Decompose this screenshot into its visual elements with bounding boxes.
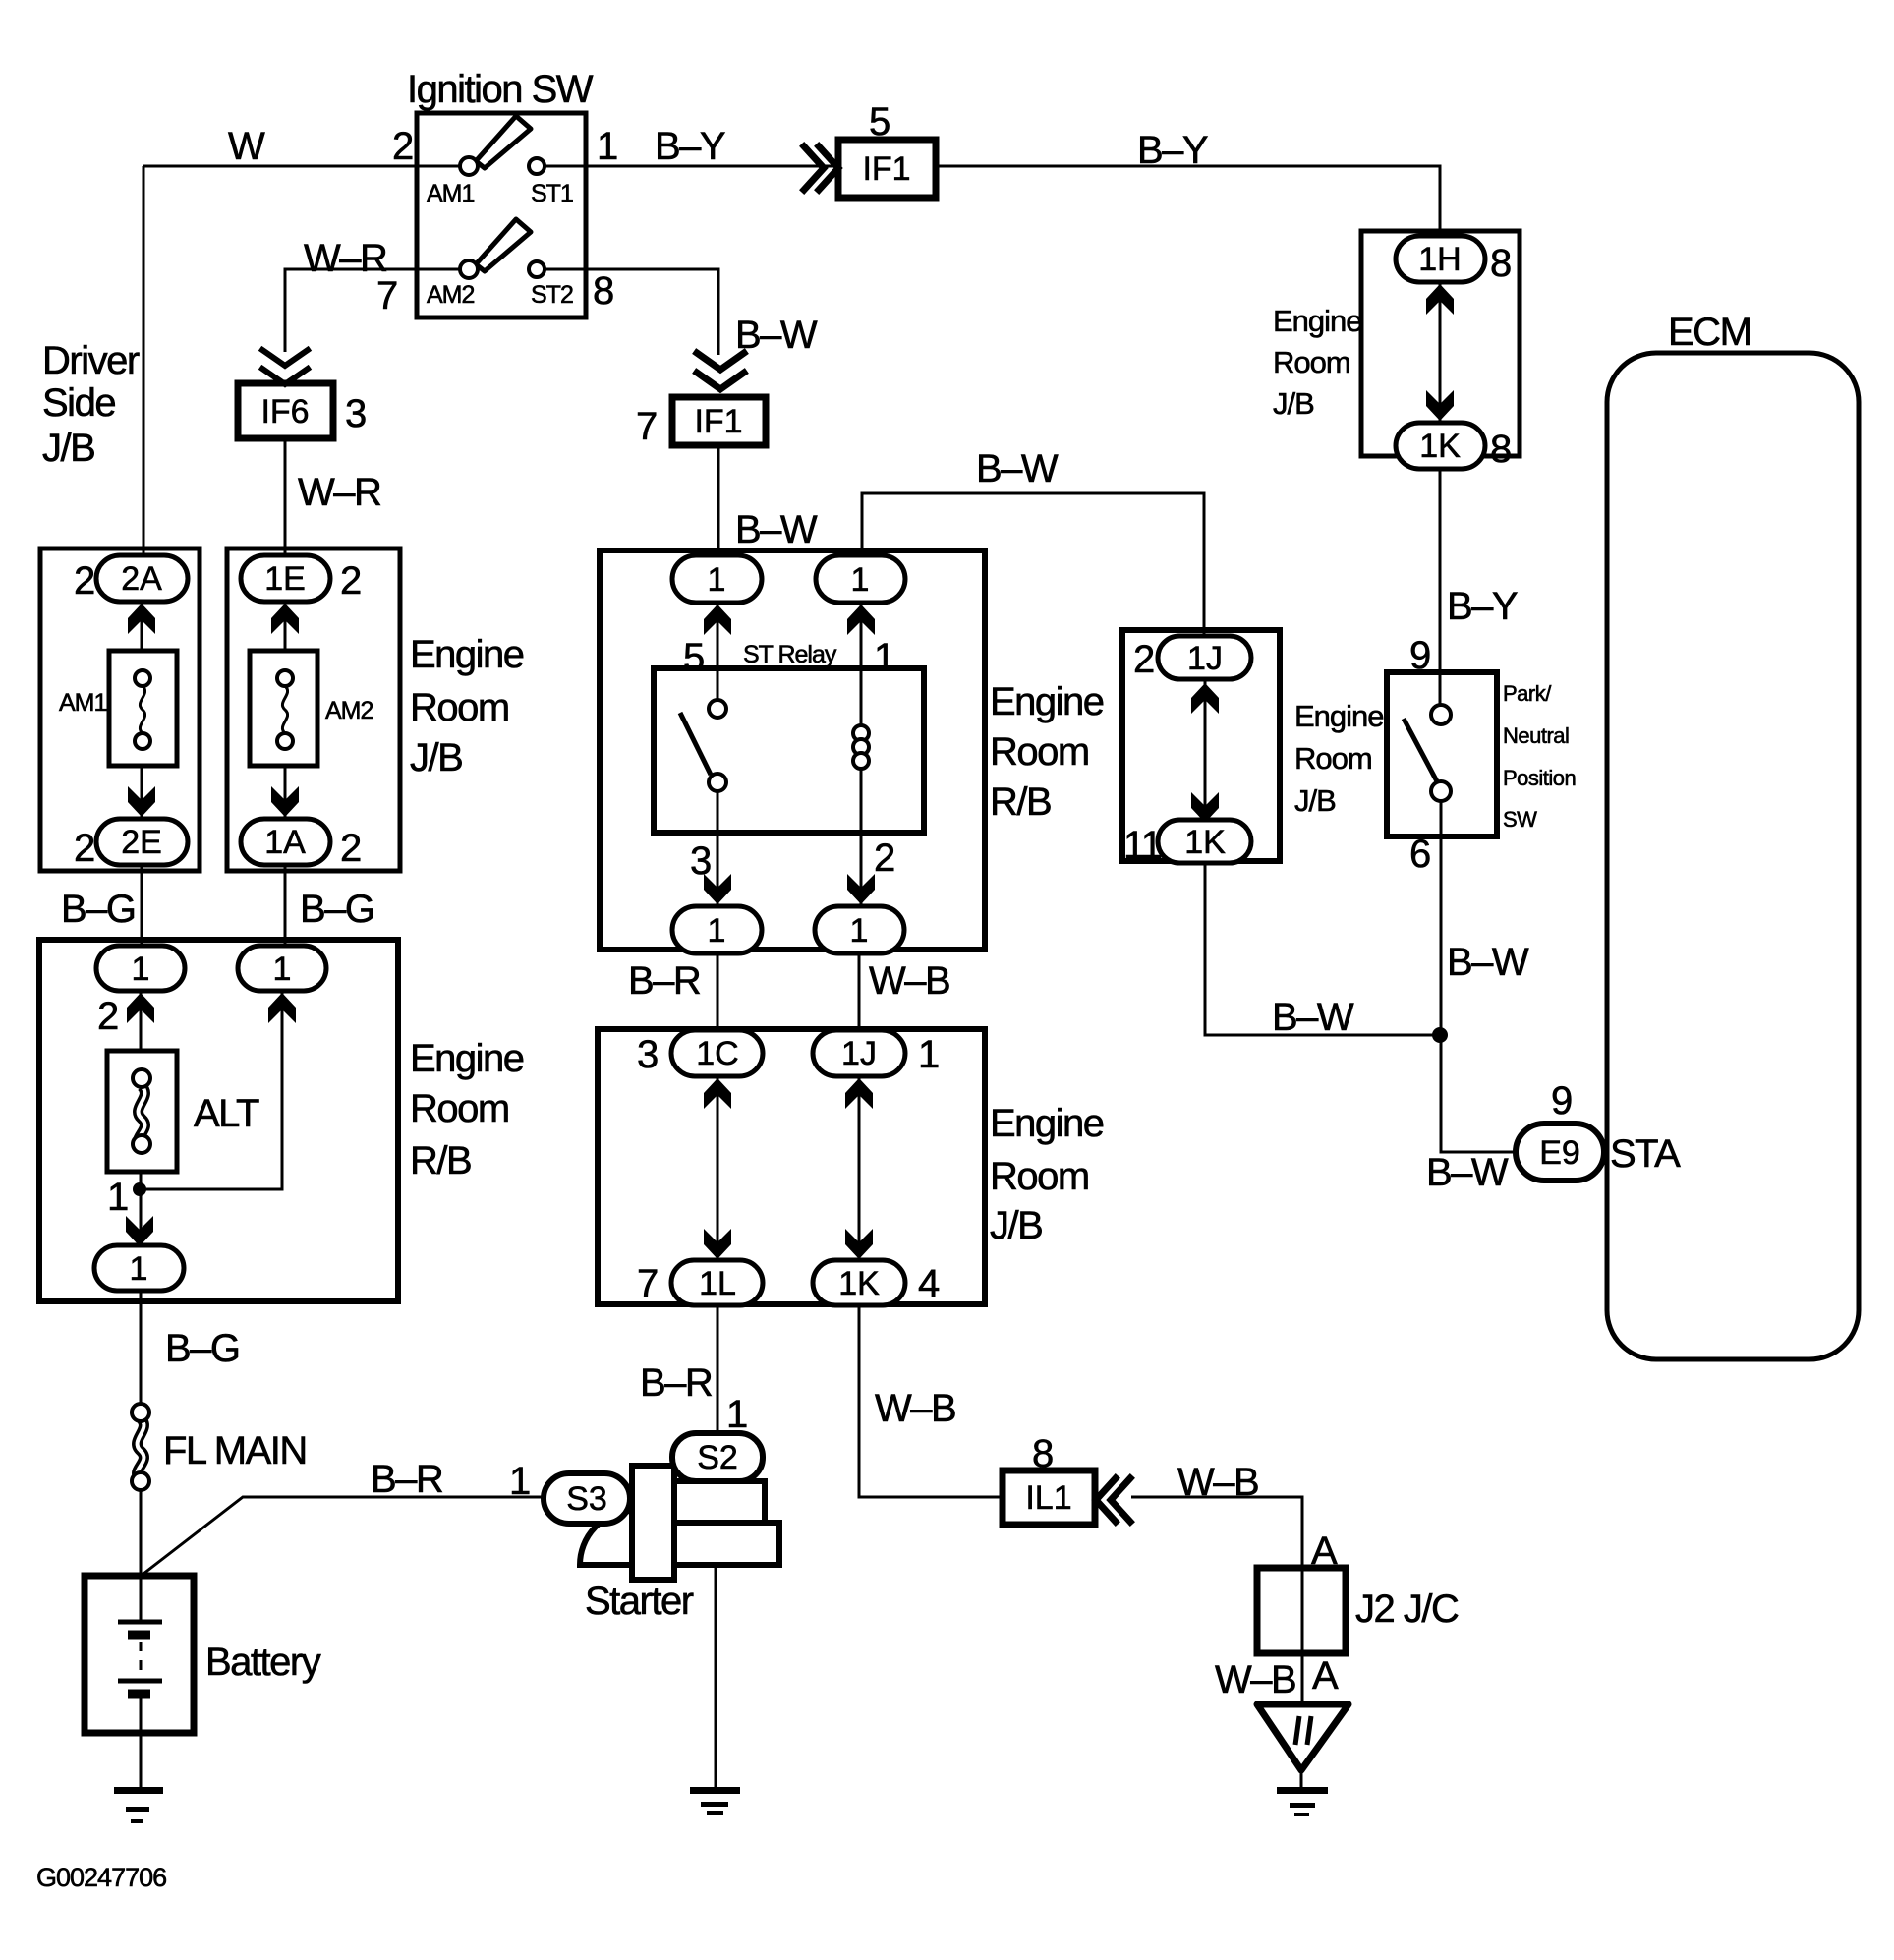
svg-text:W–B: W–B: [875, 1387, 955, 1430]
wire W horizontal from Driver Side J/B riser to ignition AM1: [143, 165, 461, 168]
connector 1E pin 2: [241, 555, 361, 603]
svg-text:1C: 1C: [696, 1035, 738, 1072]
node 1 dot: [133, 1182, 146, 1196]
svg-text:Neutral: Neutral: [1503, 723, 1569, 748]
connector arrows into IF1 lower: [697, 353, 744, 370]
svg-text:2: 2: [97, 995, 118, 1038]
arrow up left: [127, 993, 154, 1023]
arrow up relay 5: [704, 605, 731, 635]
svg-text:Room: Room: [1273, 345, 1350, 379]
wire B-R between R/B and J/B: [717, 950, 719, 1032]
ignition switch contact AM2: [427, 219, 531, 309]
svg-text:FL MAIN: FL MAIN: [163, 1429, 307, 1472]
svg-text:J/B: J/B: [1294, 783, 1336, 818]
Driver Side J/B box: [40, 548, 200, 871]
svg-text:3: 3: [345, 392, 366, 435]
svg-text:AM2: AM2: [325, 697, 373, 724]
wire W-B IL1 to J2 J/C: [1131, 1497, 1302, 1568]
ground triangle II: [1257, 1704, 1349, 1770]
svg-text:AM1: AM1: [427, 180, 475, 207]
arrow up relay 1: [847, 605, 875, 635]
svg-text:2: 2: [340, 827, 361, 870]
connector 1 bottom: [94, 1245, 184, 1291]
wire ST2 to IF1 lower connector: [545, 269, 718, 355]
arrow down 1K: [845, 1229, 873, 1259]
svg-text:B–Y: B–Y: [1447, 585, 1518, 628]
svg-text:8: 8: [1490, 428, 1511, 471]
ignition switch contact ST2: [529, 261, 573, 309]
wire W-B between R/B and J/B: [858, 950, 861, 1032]
svg-text:ST1: ST1: [531, 180, 573, 207]
Engine Room J/B box top right: [1361, 231, 1520, 456]
connector E9: [1516, 1124, 1604, 1181]
wire B-W park/neutral switch to E9: [1441, 801, 1518, 1152]
connector 1L pin 7: [637, 1260, 763, 1305]
svg-text:AM2: AM2: [427, 281, 475, 309]
svg-text:8: 8: [1490, 242, 1511, 285]
wire B-R battery to starter S3: [143, 1497, 544, 1574]
arrow up 1J: [845, 1078, 873, 1109]
connector IF6 pin 3: [238, 383, 366, 438]
svg-text:1K: 1K: [1419, 428, 1461, 465]
svg-text:Position: Position: [1503, 766, 1576, 790]
wire ALT R/B to FL MAIN: [140, 1291, 143, 1405]
junction node B-W: [1432, 1027, 1448, 1043]
svg-text:Side: Side: [42, 381, 115, 425]
svg-text:B–R: B–R: [628, 959, 701, 1003]
arrow up to 2A: [128, 604, 155, 634]
connector IF1 pin 7: [636, 397, 766, 448]
wire W-B 1K to IL1: [859, 1305, 1003, 1497]
svg-text:1: 1: [918, 1033, 939, 1076]
ground battery: [114, 1787, 163, 1823]
svg-text:8: 8: [1032, 1432, 1053, 1475]
svg-text:Room: Room: [990, 1155, 1089, 1198]
battery: [85, 1576, 321, 1733]
svg-text:W–R: W–R: [298, 471, 381, 514]
svg-text:2: 2: [392, 125, 413, 168]
ST relay box: [654, 668, 924, 833]
arrow down relay 2: [847, 874, 875, 904]
svg-text:1: 1: [597, 125, 617, 168]
svg-text:J/B: J/B: [410, 736, 462, 779]
wire 1J to 1K inside J/B: [858, 1076, 861, 1262]
svg-text:SW: SW: [1503, 807, 1537, 832]
relay contact: [680, 700, 726, 791]
svg-text:4: 4: [918, 1262, 940, 1305]
wire B-W IF1 to Engine Room R/B: [717, 445, 720, 556]
relay coil: [853, 725, 869, 769]
connector IF1 pin 5: [838, 100, 936, 198]
arrow down to 1A: [271, 786, 299, 817]
arrow up 1H: [1426, 284, 1454, 315]
fuse ALT: [107, 1051, 259, 1172]
svg-text:W–B: W–B: [1215, 1658, 1295, 1701]
junction connector J2 J/C: [1257, 1568, 1459, 1653]
svg-text:B–Y: B–Y: [655, 125, 725, 168]
svg-text:S2: S2: [697, 1439, 738, 1476]
wire relay coil column: [860, 603, 863, 727]
wire B-G 2E to Engine Room R/B: [141, 865, 143, 947]
wire FL MAIN to battery: [140, 1489, 143, 1577]
Engine Room R/B box with ALT fuse: [39, 940, 398, 1301]
wire relay contact column: [717, 603, 719, 700]
svg-text:1L: 1L: [699, 1265, 736, 1302]
svg-text:1H: 1H: [1418, 241, 1461, 278]
svg-text:1: 1: [107, 1176, 128, 1219]
svg-text:1: 1: [273, 951, 292, 988]
connector IL1 pin 8: [1003, 1432, 1095, 1525]
connector 1J pin 1: [813, 1030, 939, 1076]
svg-text:R/B: R/B: [990, 780, 1051, 824]
svg-text:7: 7: [637, 1262, 658, 1305]
arrow up right: [268, 993, 296, 1023]
svg-text:Engine: Engine: [1294, 699, 1384, 733]
svg-text:B–G: B–G: [61, 888, 136, 931]
connector 1K pin 11: [1123, 820, 1251, 867]
svg-text:Engine: Engine: [1273, 304, 1362, 338]
arrow up 1C: [704, 1078, 731, 1109]
Engine Room J/B box middle: [1122, 630, 1280, 861]
connector 1K pin 8 right: [1396, 423, 1511, 471]
svg-text:W–R: W–R: [304, 237, 387, 280]
svg-text:B–W: B–W: [1272, 996, 1354, 1039]
wire W-R from AM2 left to IF6: [285, 269, 461, 352]
connector 1 relay bottom right: [815, 906, 904, 953]
svg-text:6: 6: [1409, 833, 1430, 876]
svg-text:IF6: IF6: [260, 393, 309, 431]
svg-text:9: 9: [1551, 1079, 1572, 1123]
connector 1 relay top right: [816, 555, 905, 603]
svg-text:1J: 1J: [1187, 640, 1223, 677]
svg-text:B–R: B–R: [371, 1458, 443, 1501]
connector 2E pin 2: [74, 819, 188, 870]
svg-text:1K: 1K: [838, 1265, 880, 1302]
ignition switch contact AM1: [427, 116, 531, 207]
svg-text:1E: 1E: [264, 560, 306, 598]
svg-text:B–W: B–W: [976, 447, 1059, 490]
starter body: [580, 1466, 779, 1580]
svg-text:1: 1: [851, 561, 870, 599]
svg-text:3: 3: [637, 1033, 658, 1076]
svg-text:1K: 1K: [1184, 824, 1226, 861]
wire 1J to 1K middle junction block: [1204, 679, 1207, 826]
connector 1 relay top left: [672, 555, 762, 603]
fusible link FL MAIN: [132, 1404, 307, 1490]
svg-text:Room: Room: [410, 686, 509, 729]
svg-text:Room: Room: [1294, 741, 1372, 776]
ignition switch contact ST1: [529, 158, 573, 207]
arrow down to bottom oval: [126, 1216, 153, 1246]
fuse AM2: [250, 651, 373, 766]
svg-text:E9: E9: [1539, 1134, 1580, 1172]
wire B-Y from IF1 to Engine Room J/B 1H: [936, 166, 1440, 236]
wire through J2 J/C to ground triangle: [1301, 1568, 1304, 1704]
svg-text:J/B: J/B: [1273, 386, 1314, 421]
svg-text:2: 2: [74, 827, 94, 870]
Engine Room R/B box with ST relay: [600, 550, 985, 950]
svg-text:W–B: W–B: [1177, 1461, 1258, 1504]
wire ST1 to IF1 connector: [545, 165, 838, 168]
svg-text:W: W: [228, 125, 265, 168]
svg-text:Room: Room: [990, 730, 1089, 774]
wire starter to ground: [715, 1565, 717, 1787]
connector 1J pin 2: [1133, 636, 1251, 681]
svg-text:B–G: B–G: [165, 1327, 240, 1370]
arrow down 1K right: [1426, 390, 1454, 421]
Engine Room J/B box with AM2: [227, 548, 400, 871]
svg-text:ST2: ST2: [531, 281, 573, 309]
arrow down to 2E: [128, 786, 155, 817]
svg-text:2: 2: [340, 559, 361, 603]
svg-text:1: 1: [726, 1393, 747, 1436]
wire B-W branch to 1J junction block: [862, 493, 1204, 637]
svg-text:B–W: B–W: [735, 314, 818, 357]
Engine Room J/B box bottom: [598, 1029, 985, 1304]
svg-text:ST Relay: ST Relay: [743, 641, 837, 668]
wire node 1 branch to right oval: [140, 991, 282, 1189]
svg-text:J/B: J/B: [42, 427, 94, 470]
wire W vertical riser down to Driver Side J/B: [143, 166, 145, 556]
connector arrows into IF6: [262, 350, 308, 366]
wire 1H to 1K right junction block: [1439, 282, 1442, 425]
svg-text:11: 11: [1123, 824, 1162, 867]
svg-text:Engine: Engine: [990, 680, 1104, 723]
svg-text:J2 J/C: J2 J/C: [1355, 1587, 1459, 1631]
svg-text:IL1: IL1: [1025, 1479, 1071, 1517]
svg-text:8: 8: [593, 269, 613, 313]
svg-text:5: 5: [869, 100, 890, 144]
connector 1 left top: [96, 946, 185, 1038]
svg-text:S3: S3: [566, 1480, 607, 1518]
svg-text:Ignition SW: Ignition SW: [407, 68, 594, 111]
arrow down relay 3: [704, 874, 731, 904]
svg-text:1: 1: [708, 561, 726, 599]
connector 2A pin 2: [74, 555, 188, 603]
ignition switch SW box: [417, 113, 586, 317]
wire ground triangle stub: [1300, 1770, 1303, 1788]
svg-text:B–R: B–R: [640, 1361, 713, 1405]
svg-text:2A: 2A: [121, 560, 162, 598]
svg-text:R/B: R/B: [410, 1139, 471, 1182]
park/neutral position switch: [1387, 672, 1576, 836]
wire W-R IF6 to 1E: [284, 438, 287, 556]
svg-text:Engine: Engine: [410, 633, 524, 676]
connector S3 pin 1: [509, 1460, 630, 1524]
wire battery to ground: [140, 1693, 143, 1787]
svg-text:Driver: Driver: [42, 339, 140, 382]
svg-text:1: 1: [850, 912, 869, 950]
ground bars under triangle: [1277, 1787, 1328, 1816]
connector arrows into IF1: [804, 146, 824, 190]
connector 1C pin 3: [637, 1030, 763, 1076]
connector 1A pin 2: [241, 819, 361, 870]
fuse AM1: [59, 651, 177, 766]
svg-text:ECM: ECM: [1668, 311, 1751, 354]
svg-text:5: 5: [683, 636, 704, 679]
wire ALT fuse column: [140, 991, 143, 1053]
arrow up to 1E: [271, 604, 299, 634]
svg-text:2E: 2E: [121, 824, 162, 861]
svg-text:B–W: B–W: [1426, 1151, 1509, 1194]
connector S2: [672, 1433, 763, 1481]
svg-text:1: 1: [130, 1250, 148, 1288]
svg-text:Starter: Starter: [585, 1580, 694, 1623]
svg-text:1: 1: [874, 636, 894, 679]
svg-text:IF1: IF1: [862, 150, 910, 188]
arrow down 1K mid: [1191, 792, 1219, 823]
svg-text:1J: 1J: [841, 1035, 877, 1072]
svg-text:1A: 1A: [264, 824, 306, 861]
svg-text:Room: Room: [410, 1087, 509, 1130]
svg-text:2: 2: [1133, 638, 1154, 681]
svg-text:B–W: B–W: [735, 508, 818, 551]
arrow up 1J mid: [1191, 683, 1219, 714]
svg-text:B–W: B–W: [1447, 941, 1529, 984]
svg-text:Park/: Park/: [1503, 681, 1552, 706]
svg-text:Engine: Engine: [410, 1037, 524, 1080]
svg-text:2: 2: [74, 559, 94, 603]
svg-text:7: 7: [376, 274, 397, 317]
svg-text:B–G: B–G: [300, 888, 374, 931]
svg-text:7: 7: [636, 405, 657, 448]
wire AM2 fuse column Engine Room J/B: [284, 602, 287, 653]
connector 1K pin 4: [813, 1260, 940, 1305]
wire AM1 fuse column Driver Side J/B: [141, 602, 143, 653]
connector arrows out of IL1: [1096, 1478, 1116, 1522]
arrow down 1L: [704, 1229, 731, 1259]
svg-text:W–B: W–B: [869, 959, 949, 1003]
wire B-R 1L to starter S2: [717, 1305, 719, 1435]
svg-text:2: 2: [874, 836, 894, 880]
svg-text:1: 1: [509, 1460, 530, 1503]
wire 1C to 1L inside J/B: [717, 1076, 719, 1262]
wire B-G 1A to Engine Room R/B: [284, 865, 287, 947]
svg-text:ALT: ALT: [194, 1092, 259, 1135]
svg-text:1: 1: [132, 951, 150, 988]
svg-text:A: A: [1312, 1654, 1339, 1698]
ECM box: [1607, 311, 1859, 1359]
svg-text:AM1: AM1: [59, 689, 107, 717]
svg-text:STA: STA: [1610, 1132, 1681, 1176]
connector 1H pin 8: [1396, 236, 1511, 285]
svg-text:B–Y: B–Y: [1137, 129, 1208, 172]
wire B-W 1K to junction node: [1205, 861, 1440, 1035]
svg-text:Engine: Engine: [990, 1102, 1104, 1145]
connector 1 right top: [238, 946, 326, 991]
ground starter: [690, 1787, 740, 1815]
svg-text:J/B: J/B: [990, 1204, 1042, 1247]
svg-text:1: 1: [708, 912, 726, 950]
svg-text:G00247706: G00247706: [36, 1863, 166, 1892]
connector 1 relay bottom left: [672, 906, 762, 953]
svg-text:3: 3: [690, 839, 711, 883]
wire B-Y 1K to park/neutral switch: [1439, 456, 1442, 706]
svg-text:IF1: IF1: [694, 403, 742, 440]
svg-text:Battery: Battery: [205, 1641, 321, 1684]
